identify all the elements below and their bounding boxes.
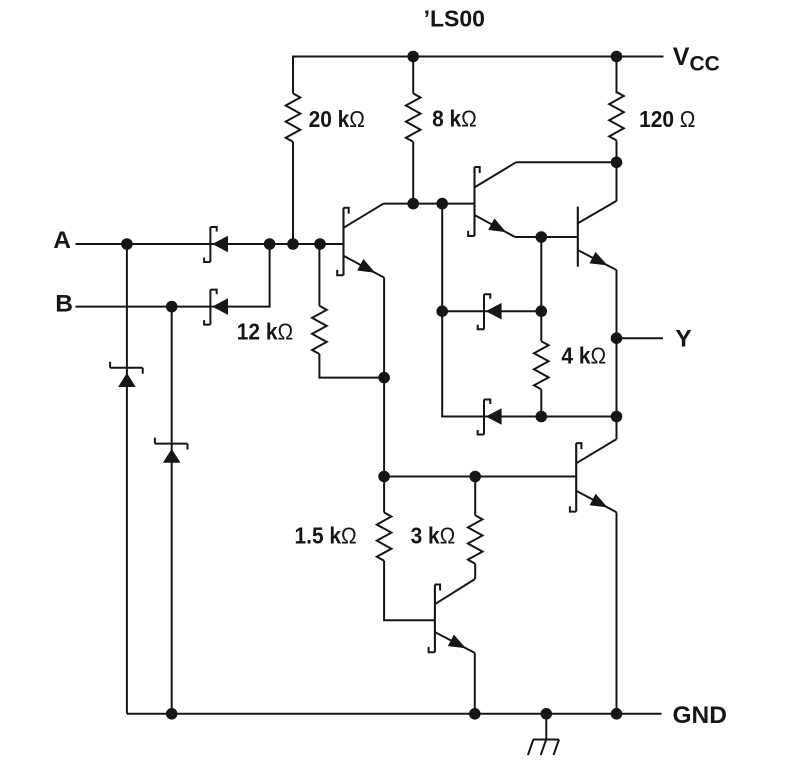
svg-text:120 Ω: 120 Ω xyxy=(639,106,695,132)
svg-text:Y: Y xyxy=(675,325,691,352)
svg-text:GND: GND xyxy=(673,702,727,729)
svg-text:’LS00: ’LS00 xyxy=(424,5,485,31)
svg-text:12 kΩ: 12 kΩ xyxy=(237,318,293,344)
svg-text:1.5 kΩ: 1.5 kΩ xyxy=(295,523,357,549)
svg-text:A: A xyxy=(53,227,71,254)
svg-text:3 kΩ: 3 kΩ xyxy=(411,522,456,548)
svg-text:8 kΩ: 8 kΩ xyxy=(432,106,477,132)
svg-text:B: B xyxy=(55,290,73,317)
svg-text:20 kΩ: 20 kΩ xyxy=(309,106,365,132)
svg-text:4 kΩ: 4 kΩ xyxy=(561,343,606,369)
